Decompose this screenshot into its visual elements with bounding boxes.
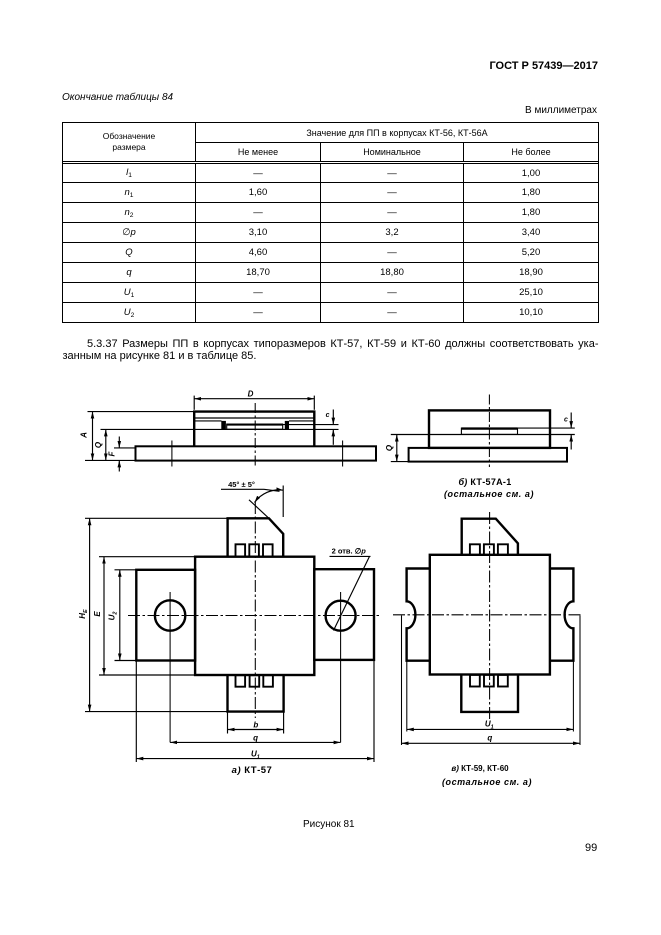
horizontal center line (plan v) bbox=[393, 614, 581, 616]
left post bbox=[221, 421, 226, 429]
svg-text:45° ± 5°: 45° ± 5° bbox=[228, 480, 255, 489]
cap inner line 3 bbox=[195, 428, 314, 430]
units note bbox=[525, 105, 597, 116]
svg-text:q: q bbox=[253, 733, 258, 742]
svg-text:U1: U1 bbox=[485, 720, 494, 731]
crystal plate (side view a) bbox=[227, 424, 283, 429]
bottom notches (plan v) bbox=[470, 675, 480, 687]
page number 99 bbox=[585, 842, 597, 854]
flange hole tick right bbox=[342, 441, 344, 467]
top notches (plan a) bbox=[236, 544, 246, 556]
center line (side view b) bbox=[488, 395, 490, 468]
dim q (plan a) bbox=[170, 741, 341, 743]
cap inner line 1 bbox=[195, 417, 314, 419]
svg-text:F: F bbox=[108, 450, 117, 456]
dim A bbox=[85, 412, 194, 461]
top lead tab (plan a) bbox=[228, 518, 284, 556]
dim U1 (plan a) bbox=[136, 660, 374, 762]
svg-text:Q: Q bbox=[385, 444, 394, 451]
horizontal center line (plan a) bbox=[128, 615, 380, 617]
vertical center line (plan a) bbox=[254, 502, 256, 718]
paragraph 5.3.37 bbox=[63, 338, 599, 363]
svg-text:U1: U1 bbox=[251, 749, 260, 760]
dim U1 (plan v) bbox=[407, 728, 574, 730]
bottom notches (plan a) bbox=[236, 675, 246, 687]
vertical center line (plan v) bbox=[489, 512, 491, 719]
left hole (plan a) bbox=[155, 600, 185, 630]
dim q (plan v) bbox=[402, 742, 581, 744]
cap inner line (side view b) bbox=[430, 434, 549, 436]
svg-text:с: с bbox=[326, 412, 330, 419]
dim c (side view a) bbox=[283, 410, 339, 445]
dim b bbox=[228, 712, 284, 734]
caption b) KT-57A-1 bbox=[435, 477, 535, 487]
crystal plate (side view b) bbox=[461, 428, 517, 434]
bottom lead tab (plan v) bbox=[461, 675, 518, 712]
leader 2 holes dia p bbox=[330, 556, 371, 630]
svg-text:Q: Q bbox=[94, 441, 103, 448]
top lead tab (plan v) bbox=[462, 519, 518, 555]
table 84 bbox=[62, 122, 599, 323]
svg-text:с: с bbox=[564, 417, 568, 424]
flange (side view a) bbox=[136, 446, 377, 460]
right flange tab (plan a) bbox=[314, 569, 374, 660]
right hole (plan a) bbox=[326, 601, 356, 631]
body (plan a) bbox=[195, 557, 314, 675]
caption v) KT-59 KT-60 bbox=[430, 764, 530, 773]
figure caption bbox=[303, 819, 355, 830]
body (plan v) bbox=[430, 555, 550, 675]
dim F bbox=[114, 437, 136, 472]
svg-text:Е: Е bbox=[93, 611, 102, 617]
center line (side view a) bbox=[254, 403, 256, 467]
bottom lead tab (plan a) bbox=[228, 676, 284, 712]
left notch tab (plan v) bbox=[407, 569, 430, 661]
dim D bbox=[194, 396, 314, 410]
svg-text:U2: U2 bbox=[108, 612, 119, 621]
svg-text:2 отв. ∅p: 2 отв. ∅p bbox=[332, 546, 367, 555]
left flange tab (plan a) bbox=[136, 570, 195, 661]
running head ГОСТ Р 57439—2017 bbox=[489, 60, 598, 72]
left hole center line bbox=[169, 592, 171, 742]
flange hole tick left bbox=[171, 441, 173, 467]
svg-text:НЕ: НЕ bbox=[78, 609, 89, 619]
right post bbox=[285, 421, 289, 429]
dim Q (side view b) bbox=[391, 435, 429, 462]
cap (side view b) bbox=[429, 410, 550, 448]
cap outline (side view a) bbox=[194, 412, 314, 447]
dim Q (side view a) bbox=[101, 429, 195, 460]
caption a) KT-57 bbox=[202, 765, 302, 776]
ext line q right (plan v) bbox=[579, 616, 581, 746]
dim E bbox=[99, 557, 195, 675]
table continuation caption bbox=[62, 92, 173, 103]
svg-text:b: b bbox=[253, 720, 258, 729]
svg-text:А: А bbox=[80, 432, 89, 439]
ext line U1 left (plan v) bbox=[406, 662, 408, 732]
svg-text:q: q bbox=[487, 734, 492, 743]
ext line q left (plan v) bbox=[401, 616, 403, 746]
right notch tab (plan v) bbox=[550, 569, 574, 661]
dim c (side view b) bbox=[518, 413, 575, 450]
cap inner line 2 segments bbox=[195, 420, 314, 422]
ext line U1 right (plan v) bbox=[572, 662, 574, 732]
dim U2 bbox=[115, 570, 137, 661]
top notches (plan v) bbox=[470, 544, 480, 555]
flange (side view b) bbox=[409, 448, 567, 462]
dim 45 deg bbox=[221, 486, 283, 519]
right hole center line bbox=[340, 592, 342, 742]
svg-text:D: D bbox=[248, 389, 254, 398]
dim HE bbox=[85, 518, 228, 711]
